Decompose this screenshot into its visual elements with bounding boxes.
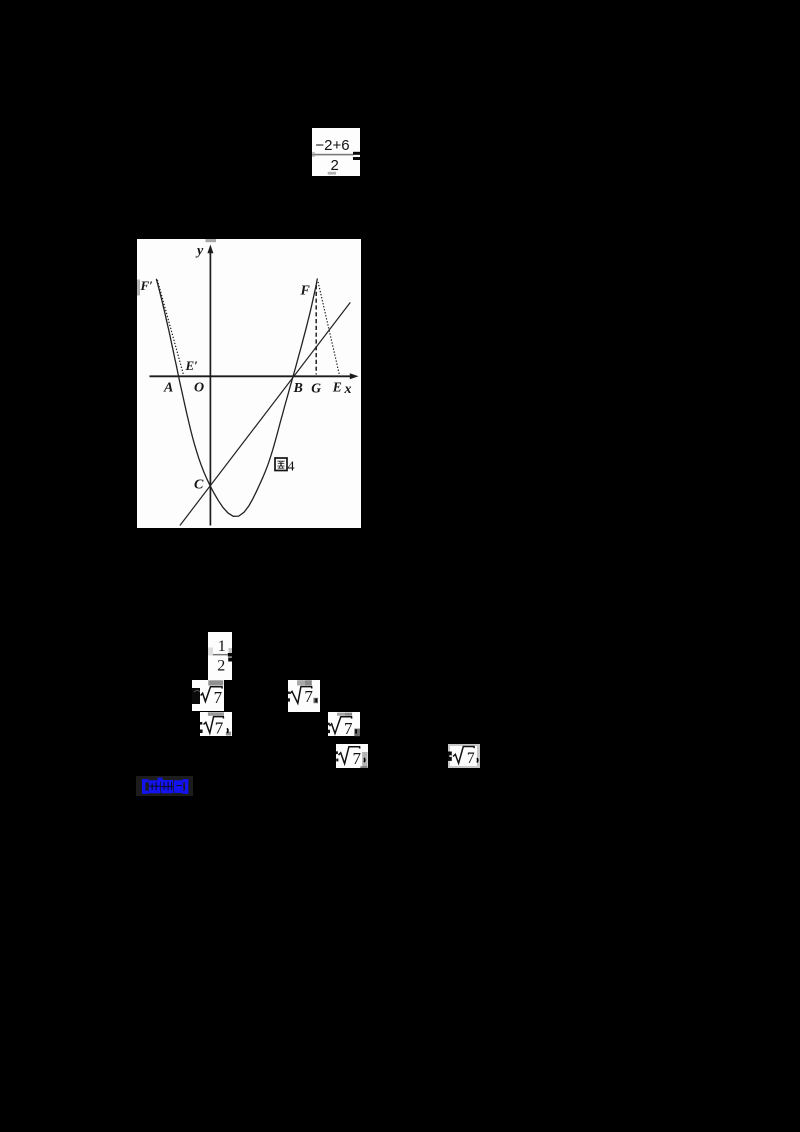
svg-text:E′: E′ [185,358,199,373]
svg-text:A: A [163,381,173,396]
svg-text:7: 7 [215,718,224,737]
svg-text:−2+6: −2+6 [315,137,349,154]
svg-text:O: O [194,381,204,396]
svg-text:F: F [300,284,311,299]
svg-text:x: x [344,382,352,397]
svg-text:7: 7 [213,688,222,707]
svg-text:7: 7 [467,750,475,767]
svg-text:7: 7 [344,719,353,737]
svg-text:F′: F′ [140,278,154,293]
svg-text:7: 7 [353,749,362,768]
svg-text:2: 2 [217,658,225,675]
svg-text:2: 2 [331,157,339,174]
svg-text:4: 4 [288,460,295,475]
svg-text:E: E [332,380,342,395]
svg-text:7: 7 [304,687,313,706]
svg-text:B: B [293,381,303,396]
svg-text:1: 1 [218,638,226,655]
svg-text:G: G [311,381,321,396]
svg-text:C: C [194,478,204,493]
svg-text:y: y [195,244,204,259]
